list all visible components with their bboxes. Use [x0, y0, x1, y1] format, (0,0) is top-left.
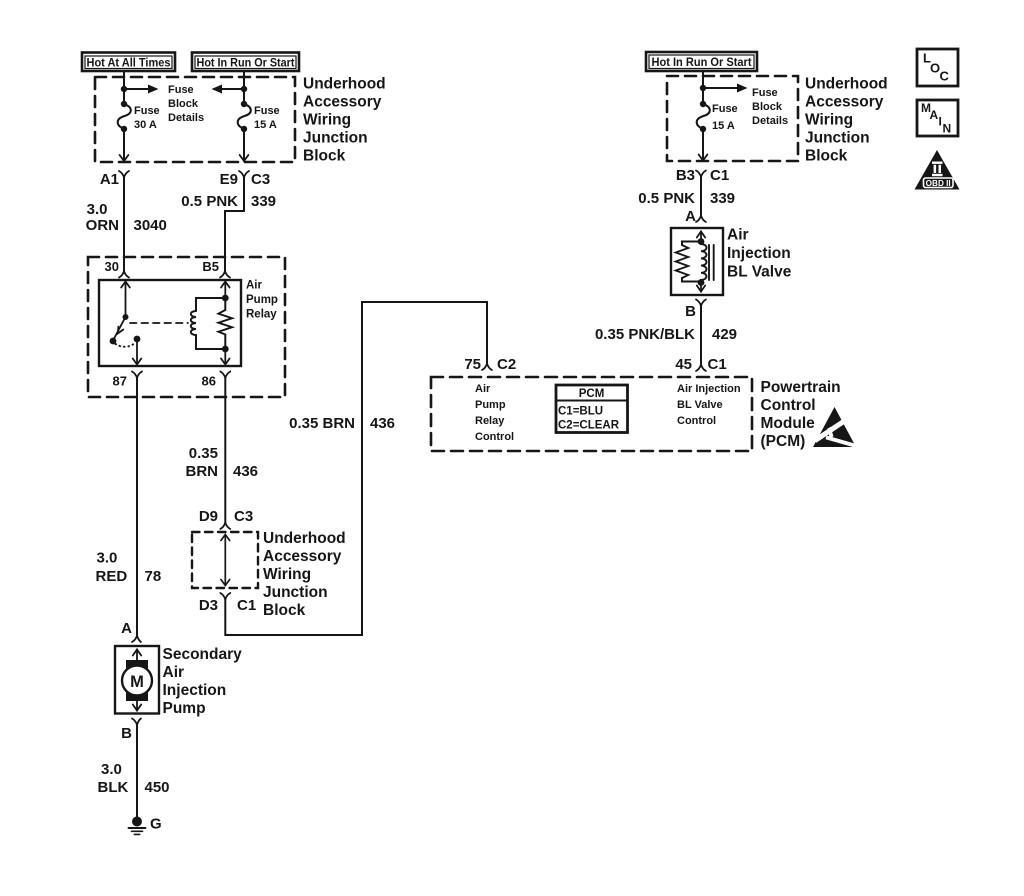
svg-text:Accessory: Accessory — [805, 94, 884, 111]
svg-text:Hot At All Times: Hot At All Times — [87, 56, 171, 70]
svg-text:B5: B5 — [202, 259, 219, 274]
svg-text:30: 30 — [105, 259, 119, 274]
svg-text:BLK: BLK — [98, 779, 129, 796]
svg-text:Control: Control — [677, 415, 716, 427]
svg-text:0.35 PNK/BLK: 0.35 PNK/BLK — [595, 326, 695, 343]
connector D9 / C3 (fork down) — [199, 508, 253, 529]
wire label 0.35 BRN 436 (vertical run) — [186, 445, 259, 480]
air injection BL valve box — [671, 228, 723, 295]
relay switch open contact dot — [110, 338, 117, 345]
connector D3 / C1 (fork up) — [199, 593, 256, 614]
connector pin B5 (fork down) — [202, 259, 230, 278]
relay resistor R1 (parallel with coil) — [218, 298, 232, 349]
svg-text:Fuse: Fuse — [712, 103, 738, 115]
pump entry arrow up — [133, 650, 141, 662]
svg-text:75: 75 — [464, 356, 481, 373]
wire label 0.5 PNK 339 (right) — [638, 190, 735, 207]
connector pin 86 (fork up) — [202, 372, 231, 389]
svg-text:45: 45 — [675, 356, 692, 373]
connector pin 30 (fork down) — [105, 259, 129, 278]
junction dot on fuse 30A feed — [121, 86, 127, 92]
svg-text:Relay: Relay — [475, 415, 505, 427]
svg-text:Junction: Junction — [805, 130, 870, 147]
svg-text:Module: Module — [761, 415, 816, 432]
label Underhood Accessory Wiring Junction Block (left) — [303, 76, 386, 165]
relay switch arm with arrowhead — [114, 317, 126, 340]
label Powertrain Control Module (PCM) — [761, 379, 841, 450]
wire label 0.5 PNK 339 — [181, 193, 276, 210]
junction dot on fuse 15A feed — [241, 86, 247, 92]
arrow to Fuse Block Details (pointing right) — [124, 85, 159, 94]
wire pump B to ground — [136, 725, 138, 819]
svg-text:B: B — [121, 725, 132, 742]
connector pump pin A (fork down) — [121, 620, 141, 642]
svg-text:Hot In Run Or Start: Hot In Run Or Start — [197, 56, 295, 70]
svg-text:D3: D3 — [199, 597, 218, 614]
PCM connector legend box — [556, 385, 628, 433]
relay coil L1 — [191, 298, 226, 349]
relay coil branch: entry arrow up (pin B5) — [221, 282, 230, 299]
arrow to Fuse Block Details (right, pointing right) — [703, 84, 748, 93]
wire from right Hot box — [702, 71, 704, 104]
svg-text:86: 86 — [202, 374, 216, 389]
wire A1 to relay pin 30 — [123, 178, 125, 272]
svg-text:B3: B3 — [676, 167, 695, 184]
svg-text:C1: C1 — [708, 356, 727, 373]
power label box Hot At All Times — [82, 53, 175, 72]
svg-text:Junction: Junction — [263, 584, 328, 601]
svg-text:Fuse: Fuse — [168, 84, 194, 96]
svg-text:BL Valve: BL Valve — [677, 399, 723, 411]
svg-text:87: 87 — [113, 374, 127, 389]
svg-text:Control: Control — [761, 397, 816, 414]
pump motor M — [122, 660, 152, 701]
svg-text:C1=BLU: C1=BLU — [558, 406, 603, 418]
svg-text:Wiring: Wiring — [263, 566, 311, 583]
svg-text:15 A: 15 A — [712, 120, 735, 132]
svg-text:Accessory: Accessory — [263, 548, 342, 565]
OBD II symbol — [915, 150, 960, 190]
label Underhood Accessory Wiring Junction Block (right) — [805, 76, 888, 165]
wire pin 87 to pump A — [136, 378, 138, 635]
svg-text:BRN: BRN — [186, 463, 219, 480]
fuse F2 15A — [238, 101, 251, 132]
wire from Hot At All Times into fuse block — [123, 71, 125, 104]
svg-text:(PCM): (PCM) — [761, 433, 806, 450]
relay switch pivot dot — [123, 314, 129, 320]
svg-text:436: 436 — [233, 463, 258, 480]
relay solid box — [99, 280, 241, 366]
svg-text:C2: C2 — [497, 356, 516, 373]
MAIN page symbol — [917, 100, 958, 136]
wire below fuse 30A with exit arrow — [120, 129, 129, 161]
svg-text:Wiring: Wiring — [303, 112, 351, 129]
svg-text:3.0: 3.0 — [101, 761, 122, 778]
svg-text:0.5 PNK: 0.5 PNK — [181, 193, 238, 210]
fuse F1 30A — [118, 101, 131, 132]
wire E9 to relay pin B5 (jog) — [225, 178, 244, 272]
label Fuse 15 A — [254, 105, 280, 131]
connector pump pin B (fork up) — [121, 719, 141, 743]
pump exit arrow down — [133, 700, 141, 711]
junction block internal arrows — [221, 535, 230, 586]
fuse block dashed box (left) — [95, 77, 295, 162]
svg-text:B: B — [685, 303, 696, 320]
svg-text:Powertrain: Powertrain — [761, 379, 841, 396]
label Air Pump Relay — [246, 280, 278, 321]
wire label 3.0 BLK 450 — [98, 761, 170, 796]
svg-text:I: I — [939, 115, 942, 129]
valve top junction dot — [698, 238, 705, 245]
svg-text:Injection: Injection — [163, 682, 227, 699]
relay switch: entry arrow up (pin 30) — [121, 282, 130, 318]
label Air Injection BL Valve — [727, 227, 792, 281]
connector B3 / C1 (fork up) — [676, 167, 729, 184]
svg-text:Air: Air — [163, 664, 185, 681]
svg-text:Underhood: Underhood — [303, 76, 386, 93]
svg-text:OBD II: OBD II — [926, 179, 951, 188]
power label box Hot In Run Or Start (right) — [646, 52, 757, 71]
svg-text:Underhood: Underhood — [263, 530, 346, 547]
svg-text:RED: RED — [96, 568, 128, 585]
connector pin 87 (fork up) — [113, 372, 142, 389]
svg-text:Air: Air — [246, 280, 263, 292]
svg-text:G: G — [150, 816, 162, 833]
fuse block dashed box (right) — [667, 76, 798, 161]
connector A1 (fork up) — [100, 171, 129, 188]
wire B3 to valve A — [700, 177, 702, 215]
svg-text:0.35 BRN: 0.35 BRN — [289, 415, 355, 432]
svg-text:30 A: 30 A — [134, 119, 157, 131]
connector 45 / C1 (fork down) — [675, 356, 726, 373]
svg-text:Control: Control — [475, 431, 514, 443]
wire valve B to PCM 45/C1 — [700, 306, 702, 364]
svg-text:339: 339 — [710, 190, 735, 207]
svg-text:A: A — [685, 208, 696, 225]
svg-text:Injection: Injection — [727, 245, 791, 262]
valve exit arrow down — [697, 283, 705, 292]
ESD warning symbol — [813, 407, 857, 448]
label Fuse Block Details (right) — [752, 87, 788, 127]
wire pin 86 to D9 — [224, 378, 226, 524]
valve bottom junction dot — [698, 279, 705, 286]
svg-text:D9: D9 — [199, 508, 218, 525]
connector E9 / C3 (fork up) — [220, 171, 271, 188]
svg-text:0.5 PNK: 0.5 PNK — [638, 190, 695, 207]
svg-text:Details: Details — [168, 112, 204, 124]
connector 75 / C2 (fork down) — [464, 356, 516, 373]
arrow to Fuse Block Details (pointing left) — [212, 85, 245, 94]
svg-text:3.0: 3.0 — [87, 201, 108, 218]
svg-text:Relay: Relay — [246, 309, 277, 321]
secondary air injection pump box — [115, 646, 159, 714]
svg-text:Hot In Run Or Start: Hot In Run Or Start — [652, 55, 752, 69]
label Fuse Block Details (left) — [168, 84, 204, 124]
svg-text:C: C — [940, 69, 950, 84]
svg-text:Underhood: Underhood — [805, 76, 888, 93]
junction dot right fuse feed — [700, 85, 706, 91]
valve entry arrow up — [697, 232, 705, 242]
relay switch travel dashed arc — [116, 344, 135, 347]
wire label 3.0 RED 78 — [96, 550, 162, 586]
svg-text:15 A: 15 A — [254, 119, 277, 131]
fuse F3 15A — [697, 101, 710, 132]
svg-text:Air Injection: Air Injection — [677, 383, 741, 395]
svg-text:Fuse: Fuse — [254, 105, 280, 117]
svg-text:Junction: Junction — [303, 130, 368, 147]
label Fuse 30 A — [134, 105, 160, 131]
power label box Hot In Run Or Start (left) — [192, 53, 299, 72]
svg-text:E9: E9 — [220, 171, 238, 188]
coil bottom junction dot — [222, 346, 229, 353]
label Secondary Air Injection Pump — [163, 646, 243, 717]
svg-text:Block: Block — [303, 148, 346, 165]
svg-text:Air: Air — [475, 383, 491, 395]
relay actuation dashed line — [130, 322, 188, 324]
wire label 0.35 PNK/BLK 429 — [595, 326, 737, 343]
svg-text:ORN: ORN — [86, 217, 119, 234]
svg-text:C1: C1 — [710, 167, 729, 184]
svg-text:C1: C1 — [237, 597, 256, 614]
label Air Pump Relay Control — [475, 383, 514, 443]
svg-text:A: A — [121, 620, 132, 637]
svg-text:Secondary: Secondary — [163, 646, 243, 663]
svg-text:Block: Block — [805, 148, 848, 165]
svg-text:436: 436 — [370, 415, 395, 432]
LOC page symbol — [917, 49, 958, 86]
svg-text:Pump: Pump — [246, 294, 278, 306]
svg-text:Block: Block — [263, 602, 306, 619]
svg-text:Fuse: Fuse — [752, 87, 778, 99]
svg-text:3.0: 3.0 — [97, 550, 118, 567]
svg-text:3040: 3040 — [134, 217, 167, 234]
junction block small dashed box — [192, 532, 258, 588]
svg-text:Accessory: Accessory — [303, 94, 382, 111]
svg-text:Pump: Pump — [163, 700, 206, 717]
svg-text:450: 450 — [145, 779, 170, 796]
relay arrow down to pin 87 — [133, 339, 142, 365]
relay dashed box — [88, 257, 285, 397]
svg-text:339: 339 — [251, 193, 276, 210]
svg-text:N: N — [943, 122, 952, 136]
label Air Injection BL Valve Control — [677, 383, 741, 427]
wire D3 to PCM 75/C2 (down, right, up, right) — [225, 302, 487, 635]
svg-text:Air: Air — [727, 227, 749, 244]
valve core lines — [709, 245, 714, 280]
svg-text:C2=CLEAR: C2=CLEAR — [558, 420, 620, 432]
label Underhood Accessory Wiring Junction Block (in-line connector) — [263, 530, 346, 619]
svg-text:C3: C3 — [251, 171, 270, 188]
svg-text:Pump: Pump — [475, 399, 506, 411]
connector valve pin A (fork down) — [685, 208, 706, 225]
svg-text:Block: Block — [168, 98, 199, 110]
label Fuse 15 A (right) — [712, 103, 738, 132]
svg-text:Fuse: Fuse — [134, 105, 160, 117]
svg-text:Wiring: Wiring — [805, 112, 853, 129]
wire from Hot In Run Or Start into fuse block (left block) — [243, 71, 245, 104]
svg-text:429: 429 — [712, 326, 737, 343]
wire below fuse 15A with exit arrow — [240, 129, 249, 161]
svg-text:A1: A1 — [100, 171, 119, 188]
svg-text:BL Valve: BL Valve — [727, 264, 792, 281]
wire label 3.0 ORN 3040 — [86, 201, 167, 234]
svg-text:M: M — [130, 673, 144, 691]
svg-text:0.35: 0.35 — [189, 445, 218, 462]
coil top junction dot — [222, 295, 229, 302]
valve solenoid coil — [701, 242, 707, 283]
connector valve pin B (fork up) — [685, 300, 706, 321]
svg-text:78: 78 — [145, 568, 162, 585]
valve resistor — [676, 242, 701, 282]
PCM dashed box — [431, 377, 752, 451]
ground G — [129, 816, 162, 835]
svg-text:Block: Block — [752, 101, 783, 113]
svg-text:A: A — [930, 108, 939, 122]
wire label 0.35 BRN 436 (long run) — [289, 415, 395, 432]
relay arrow down to pin 86 — [221, 349, 230, 365]
svg-text:C3: C3 — [234, 508, 253, 525]
wire below fuse with exit arrow (right) — [699, 129, 708, 161]
svg-text:Details: Details — [752, 115, 788, 127]
svg-text:PCM: PCM — [579, 388, 605, 400]
relay switch closed contact dot (to pin 87) — [134, 336, 141, 343]
